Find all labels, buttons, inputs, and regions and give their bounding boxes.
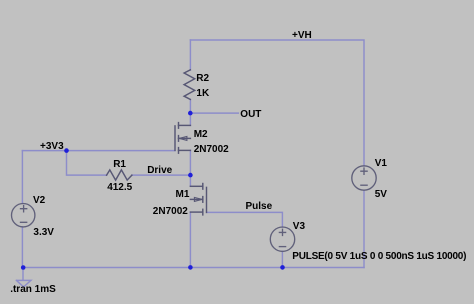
wire Pulse from M1 gate to V3 top [207,212,283,227]
node junction +3V3/R1 [64,148,69,153]
node junction M1 source at rail [188,265,193,270]
net label Drive [147,166,172,176]
node junction ground left [21,265,26,270]
wire +3V3 rail to M2 gate [22,150,175,152]
net label +VH [292,31,312,41]
wire R1 left lead from +3V3 junction [67,151,107,176]
transistor M2 body [175,123,190,154]
ground symbol [16,280,31,287]
node junction Drive [188,173,193,178]
directive .tran 1mS [10,285,56,295]
node junction OUT [188,111,193,116]
wire R1 right lead to Drive node [132,174,191,176]
value label 3.3V [33,228,54,238]
wire bottom ground rail [22,267,364,269]
wire M2 source to Drive node to M1 drain [189,150,191,186]
ref label V1 [375,159,387,169]
transistor M1 body (mirrored) [190,184,206,215]
wire left rail V2 top [21,151,23,203]
wire R2 bottom lead to OUT node and M2 drain [189,99,191,125]
resistor R2 zigzag [184,70,195,100]
net label Pulse [246,202,273,212]
value label PULSE V3 [292,252,466,262]
resistor R1 zigzag [107,170,132,180]
value label 1K [196,89,209,99]
value label 2N7002 (M2) [194,145,229,155]
net label OUT [240,110,261,120]
wire V1 bottom lead [363,190,365,267]
wire R2 top lead [189,40,191,70]
voltage source V2 [12,204,35,227]
node junction V3 at rail [280,265,285,270]
wire OUT [190,112,238,114]
value label 412.5 [107,183,132,193]
wire V2 bottom lead [21,227,23,268]
ref label V3 [293,222,305,232]
voltage source V1 [352,166,376,190]
ref label M2 [194,130,208,140]
wire M1 source to ground rail [189,212,191,267]
ref label M1 [176,190,190,200]
ref label R1 [113,160,126,170]
value label 5V [375,190,387,200]
wire ground stub [22,268,24,281]
wire top rail +VH from R2 top to V1 top [190,40,364,166]
voltage source V3 [270,227,294,251]
net label +3V3 [40,142,64,152]
wire V3 bottom lead [281,251,283,267]
value label 2N7002 (M1) [153,207,188,217]
ref label V2 [33,196,45,206]
value label R2 [196,74,209,84]
